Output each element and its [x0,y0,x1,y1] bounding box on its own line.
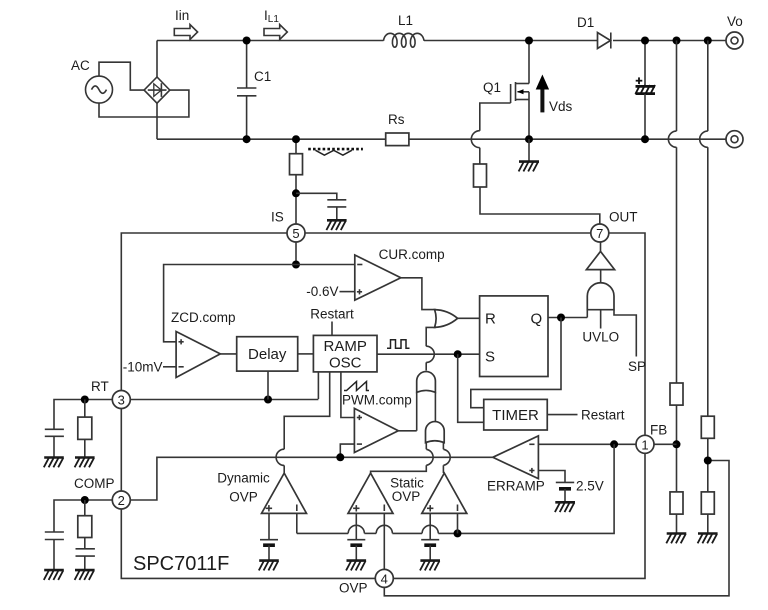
node OVP / divider2 [704,457,712,465]
block RAMP OSC [313,335,377,372]
arrow Iin [174,8,197,40]
svg-text:C1: C1 [254,69,271,84]
svg-text:COMP: COMP [74,476,115,491]
svg-text:4: 4 [381,571,388,586]
resistor Rs [386,112,409,146]
svg-text:RAMP: RAMP [324,338,367,355]
wire Dynamic OVP minus to chain [296,513,298,533]
IC boundary box [121,233,645,578]
wire PWM.comp minus to COMP line [340,444,354,457]
ground COMP cap2 [75,570,95,580]
svg-text:Vo: Vo [727,14,743,29]
capacitor RT [45,429,64,457]
pin 2 COMP [74,476,130,509]
ground RT resistor [75,458,95,468]
node RT / Delay [264,396,272,404]
svg-text:OVP: OVP [229,490,258,505]
resistor IS sense [290,139,303,224]
resistor divider2 lower [701,492,714,514]
wire pin 4 to external OVP divider [384,461,729,596]
resistor gate drive [474,164,487,187]
wire COMP pin left [54,500,112,532]
gate OR1 (to R) [435,310,458,328]
wire OR2b right input from OVP2 [443,443,450,474]
ground RT cap [44,458,64,468]
comparator Dynamic OVP [217,471,306,514]
wire divider1 upper [668,41,676,384]
svg-text:PWM.comp: PWM.comp [342,393,412,408]
svg-text:AC: AC [71,58,90,73]
terminal Vo lower [726,131,743,148]
resistor divider2 upper [701,416,714,438]
wire divider2 to ground [707,514,709,533]
node S junction [454,350,462,358]
comparator OVP2 [422,473,467,513]
arrow Vds [536,75,573,115]
node bottom rail / Q1 source [525,135,533,143]
node top rail / C1 [243,37,251,45]
wire RT pin left [54,400,112,430]
ground IS filter [326,220,346,230]
svg-text:SP: SP [628,359,646,374]
MOSFET Q1 [483,41,529,140]
svg-text:Q: Q [531,310,543,327]
node COMP branch [81,496,89,504]
arrow IL1 [264,8,287,40]
label -10mV [123,359,176,374]
wire Q to TIMER [471,318,561,408]
svg-text:OSC: OSC [329,355,362,372]
wire divider1 to ground [676,514,678,533]
ground Static OVP [346,561,366,571]
gate OR2a [417,372,436,393]
wire UVLO right leg to SP [614,310,646,374]
reference 2.5V [538,471,603,503]
wire bridge top to top rail [156,41,158,78]
svg-text:SPC7011F: SPC7011F [133,553,229,575]
block TIMER [484,399,548,430]
wire CUR.comp output to OR1 [401,278,436,310]
pin 3 RT [91,379,130,409]
svg-text:OVP: OVP [392,489,421,504]
svg-text:UVLO: UVLO [582,330,619,345]
svg-text:IS: IS [271,210,284,225]
svg-text:FB: FB [650,423,667,438]
wire IS line to CUR.comp and ZCD.comp [164,265,355,342]
node FB junction [610,440,618,448]
wire pin1 to divider1 [654,443,677,445]
resistor COMP [78,500,92,549]
wire OR2a right leg from OR2b [434,392,436,421]
node IS internal [292,261,300,269]
wire UVLO left leg from Q [586,310,588,318]
gate UVLO AND [582,283,619,345]
svg-text:Delay: Delay [248,346,287,363]
inductor L1 [384,13,425,47]
block Delay [237,337,298,371]
label Restart (osc) [310,307,354,336]
wire OR1 lower input from OR2a [426,327,436,370]
svg-text:CUR.comp: CUR.comp [379,247,445,262]
wire divider2 upper [700,41,708,417]
op-amp ERRAMP [487,436,545,494]
wire RAMP OSC to RT pin line [317,372,319,399]
waveform inductor current symbol [308,149,363,155]
wire Delay bottom to RT line [267,371,269,399]
wire S to TIMER [458,354,484,422]
ground OVP2 [420,561,440,571]
pin 1 FB [636,423,667,454]
capacitor COMP 2 [76,549,95,570]
wire FB to OVP minus chain [458,444,615,533]
wire RAMP OSC to S input [377,353,480,355]
wire to OUT pin 7 [480,187,600,224]
reference OVP2 [421,513,439,560]
node chain / OVP2 minus [454,529,462,537]
node top rail / Cout [641,37,649,45]
pin 7 OUT [591,224,609,242]
op-amp CUR.comp [355,247,445,300]
wire OR2b left input from Static OVP [371,443,434,474]
svg-text:Restart: Restart [310,307,354,322]
ground Dynamic OVP [259,561,279,571]
reference Static OVP [347,513,365,560]
wire Delay to RAMP OSC [298,353,314,355]
svg-text:-10mV: -10mV [123,359,163,374]
wire RT line [130,399,318,401]
wire divider1 middle [676,405,678,492]
svg-text:ZCD.comp: ZCD.comp [171,310,236,325]
svg-text:2: 2 [118,493,125,508]
node bottom rail / IS resistor [292,135,300,143]
wire OR1 output to R [458,317,480,319]
label -0.6V [306,284,355,299]
wire RAMP OSC to PWM.comp plus [341,372,355,418]
svg-text:OUT: OUT [609,210,638,225]
svg-text:Vds: Vds [549,99,573,114]
node top rail / divider1 [673,37,681,45]
svg-text:-0.6V: -0.6V [306,284,338,299]
wire Q output [548,317,587,319]
svg-text:D1: D1 [577,15,594,30]
terminal Vo upper [726,14,743,49]
node FB / divider1 [673,440,681,448]
diode D1 [577,15,611,49]
wire bottom rail [157,138,726,140]
svg-text:5: 5 [292,226,299,241]
waveform pulse symbol [387,340,410,349]
ground divider1 [666,534,686,544]
wire FB to ERRAMP minus [538,443,636,445]
svg-text:Dynamic: Dynamic [217,471,270,486]
gate OR2b [426,422,445,443]
reference Dynamic OVP [260,513,278,560]
output capacitor Cout (electrolytic) [635,41,655,140]
ground Q1 source [519,139,539,171]
svg-text:3: 3 [118,393,125,408]
flip-flop U2 RS latch [480,296,548,377]
pin 4 OVP [339,569,393,595]
ground divider2 [698,534,718,544]
resistor divider1 upper [670,383,683,405]
svg-text:L1: L1 [398,13,413,28]
wire COMP line (ERRAMP output) [130,457,493,500]
wire IS pin to comparators [295,242,297,265]
node top rail / divider2 [704,37,712,45]
op-amp PWM.comp [342,393,412,453]
buffer driver [586,242,614,283]
comparator Static OVP [348,473,424,513]
capacitor IS filter [296,193,346,220]
svg-text:TIMER: TIMER [492,407,539,424]
capacitor C1 [237,41,271,140]
wire ZCD.comp to Delay [220,353,236,355]
svg-text:Iin: Iin [175,8,189,23]
resistor RT [78,400,92,458]
node top rail / Q1 drain [525,37,533,45]
svg-text:Q1: Q1 [483,80,501,95]
wire Static OVP minus to pin 4 [383,513,385,569]
ground COMP cap1 [44,570,64,580]
node bottom rail / C1 [243,135,251,143]
wire Q1 gate to divider [471,103,510,164]
node Q junction [557,314,565,322]
node COMP / PWM minus [336,453,344,461]
op-amp ZCD.comp [171,310,236,378]
wire OVP2 minus to chain [457,513,459,533]
wire OR2a left leg from PWM.comp [416,392,418,431]
wire RAMP OSC to Dynamic OVP output [276,372,330,473]
wire divider2 middle [707,438,709,492]
wire AC top to bridge [99,62,144,90]
label Restart (timer) [547,407,624,422]
svg-text:2.5V: 2.5V [576,479,604,494]
svg-text:R: R [485,310,496,327]
wire top rail [157,40,384,42]
svg-text:7: 7 [596,226,603,241]
node bottom rail / Cout [641,135,649,143]
capacitor COMP 1 [45,532,64,570]
wire AC bottom to bridge [99,90,189,117]
wire bridge bottom to bottom rail [156,103,158,139]
resistor divider1 lower [670,492,683,514]
wire OVP minus chain [297,525,458,533]
node IS filter junction [292,189,300,197]
svg-text:ERRAMP: ERRAMP [487,479,545,494]
svg-text:Rs: Rs [388,112,405,127]
svg-text:Restart: Restart [581,407,625,422]
pin 5 IS [287,224,305,242]
bridge rectifier BR1 [144,77,170,103]
svg-text:OVP: OVP [339,581,368,596]
node RT branch [81,396,89,404]
svg-text:RT: RT [91,379,109,394]
svg-text:1: 1 [641,437,648,452]
svg-text:S: S [485,349,495,366]
ground 2.5V [555,502,575,512]
wire PWM.comp output to OR2a [398,430,416,432]
AC source V1 [71,58,113,103]
waveform sawtooth symbol [344,382,369,391]
